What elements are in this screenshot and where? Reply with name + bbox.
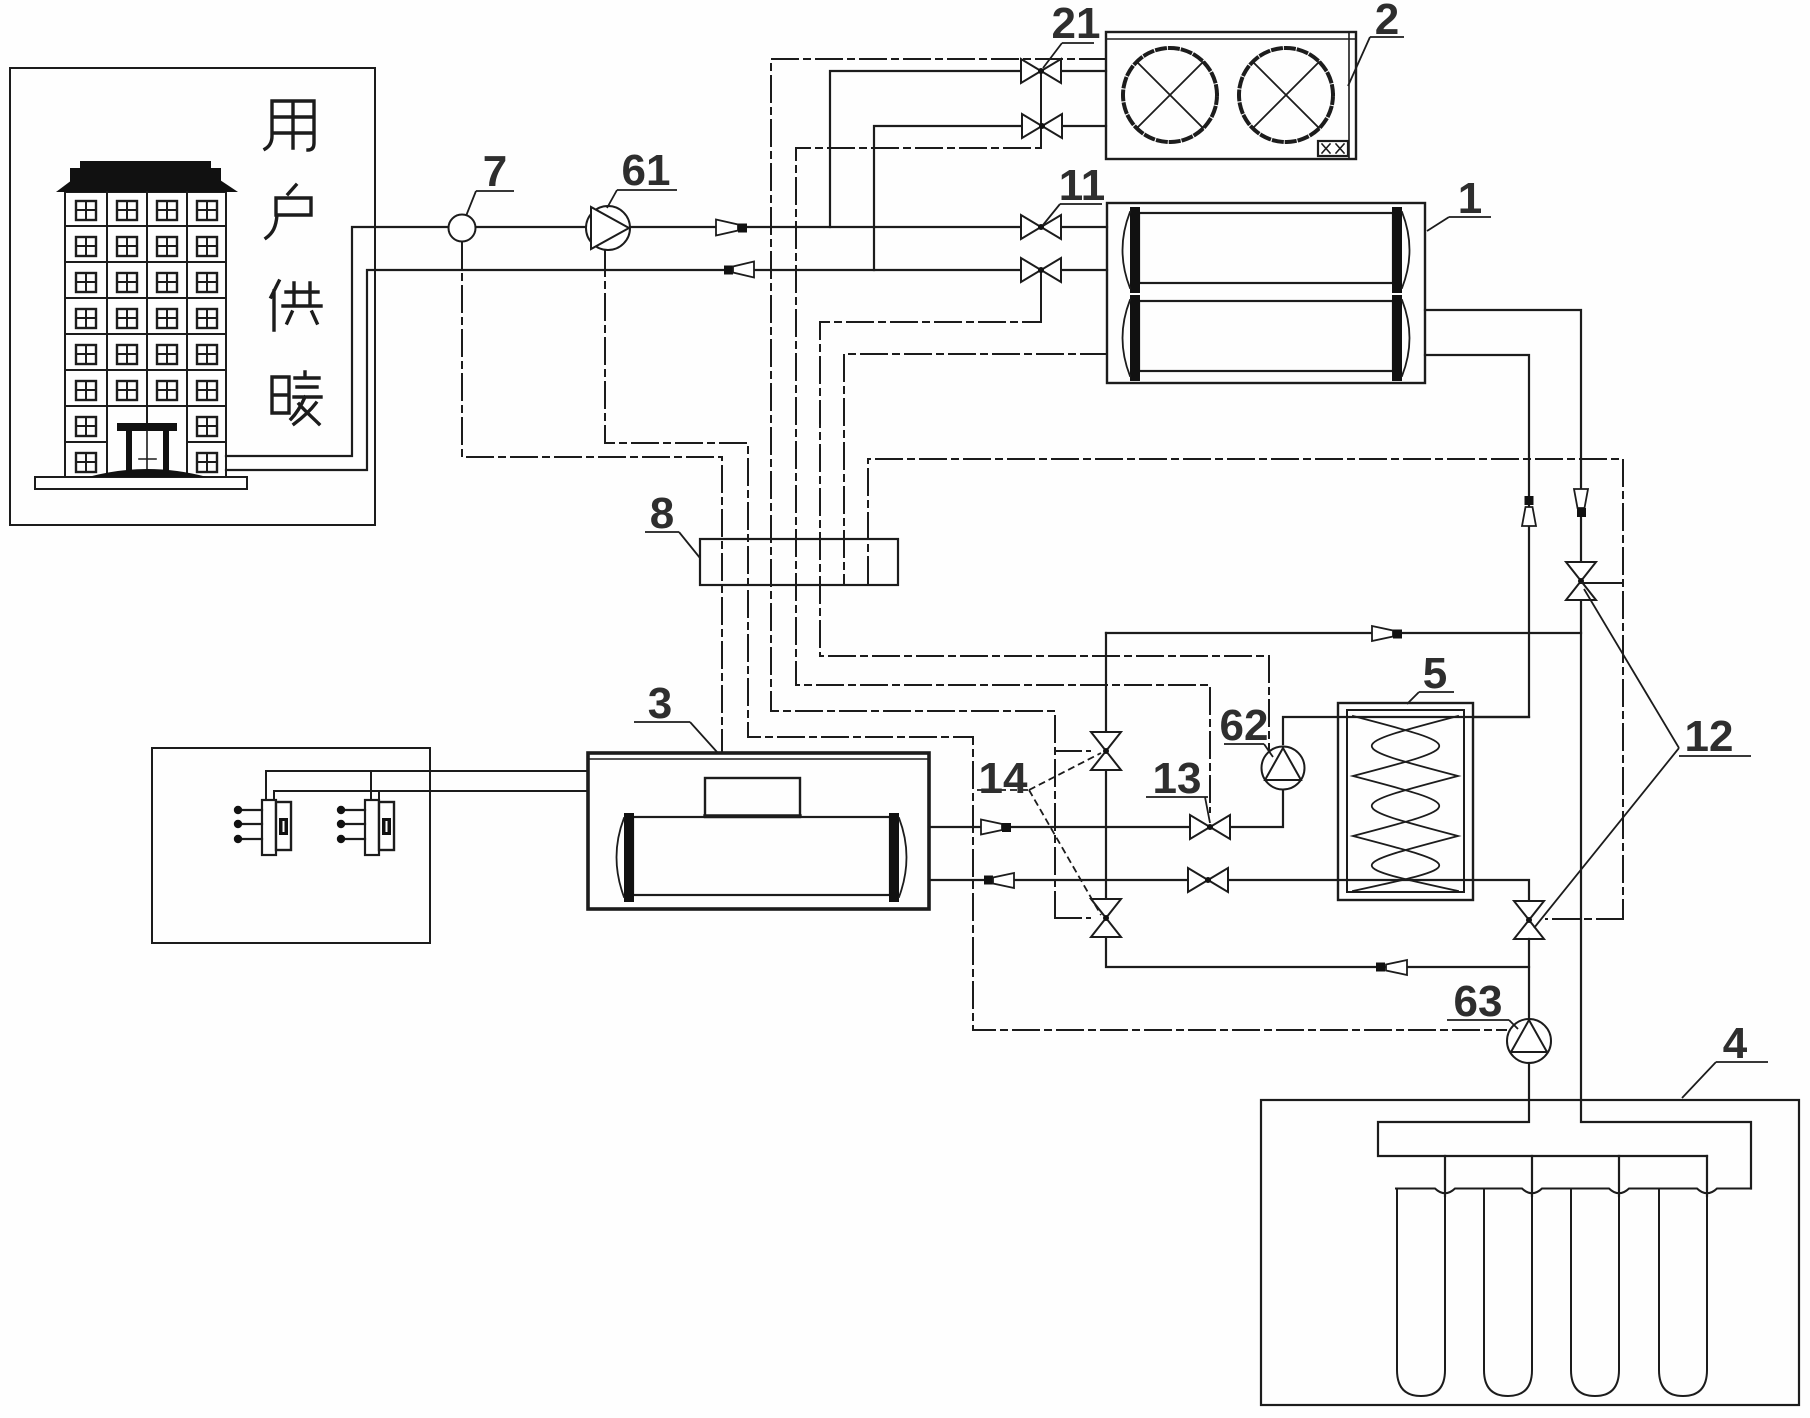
svg-text:8: 8: [650, 489, 674, 538]
valve12 upper right stub (wire): [1581, 582, 1623, 584]
building entrance mound: [88, 469, 207, 477]
svg-text:61: 61: [622, 146, 671, 195]
valve 13 upper: [1190, 815, 1230, 839]
unit3 to valve13 upper pipe (wire): [929, 791, 1283, 827]
building floor lines: [65, 226, 226, 442]
valve-21 branch line upper (wire): [830, 71, 1106, 227]
svg-text:63: 63: [1454, 977, 1503, 1026]
unit1 right outlet lower to vertical (wire): [1425, 355, 1529, 717]
svg-text:14: 14: [979, 754, 1028, 803]
chinese label 暖: [272, 372, 321, 424]
pump 61: [586, 206, 630, 250]
ground heat exchanger 4 box: [1261, 1100, 1799, 1405]
pipe return to building (wire): [226, 270, 1107, 470]
label 1 leader: [1427, 217, 1491, 231]
controller 8 box: [700, 539, 898, 585]
svg-text:4: 4: [1723, 1019, 1748, 1068]
control dash-dot: valve 21 drop to controller 8 to valve 13 (wire): [796, 71, 1210, 812]
flow arrow right on y633 line: [1372, 626, 1402, 641]
svg-text:21: 21: [1052, 0, 1101, 48]
building column lines: [107, 192, 187, 477]
ground U-tube at 1707: [1659, 1189, 1707, 1397]
flow arrow right on y827: [981, 820, 1011, 835]
ground U-tube at 1532: [1484, 1189, 1532, 1397]
unit3 to valve13 lower pipe through hx5 (wire): [929, 880, 1529, 901]
terminal box of unit 2: [1318, 141, 1348, 156]
heat exchanger 5 box: [1338, 703, 1473, 900]
label 5 leader: [1407, 692, 1454, 704]
pump62 outlet to hx5 (wire): [1283, 717, 1529, 744]
valve 14 riser vertical (wire): [1106, 633, 1529, 967]
svg-text:13: 13: [1153, 754, 1202, 803]
chinese label 用: [265, 101, 321, 424]
valve 13 lower: [1188, 868, 1228, 892]
hx5 coil: [1353, 716, 1439, 891]
unit 1 cylinder B body: [1123, 295, 1410, 381]
fan 2 of unit 2: [1239, 48, 1333, 142]
pump63 to ground loop (wire): [1528, 1063, 1530, 1122]
label 62 leader: [1224, 744, 1273, 757]
indoor terminal box: [152, 748, 430, 943]
building base platform: [35, 477, 247, 489]
control dash-dot: condenser 1 to controller 8 (wire): [844, 354, 1107, 583]
label 2 leader: [1348, 37, 1404, 86]
building door: [117, 423, 177, 477]
valve12 lower to pump 63 (wire): [1528, 939, 1530, 1019]
unit1 right outlet upper to vertical (wire): [1425, 310, 1581, 1122]
building body: [65, 192, 226, 477]
flow arrow right on supply pipe: [716, 220, 747, 236]
svg-text:3: 3: [648, 679, 672, 728]
svg-text:5: 5: [1423, 649, 1447, 698]
control dash-dot: fan unit 2 line to controller 8 to valves 14 (wire): [771, 59, 1106, 918]
pipe supply from building (wire): [226, 227, 1107, 456]
label 63 leader: [1447, 1020, 1518, 1029]
ground U-tube at 1445: [1397, 1189, 1445, 1397]
labels layer: [466, 37, 1768, 1098]
valve 21 lower: [1022, 114, 1062, 138]
unit 3 top accessory rect: [705, 778, 800, 817]
chinese label 户: [266, 185, 311, 238]
fan coil device 2: [337, 800, 394, 855]
svg-text:62: 62: [1220, 701, 1269, 750]
ground loop header chamber: [1378, 1122, 1751, 1189]
pump 63: [1507, 1019, 1551, 1063]
fan coil device 1: [234, 800, 291, 855]
label 61 leader: [607, 190, 677, 208]
flow arrow up on x1529 line: [1522, 496, 1536, 526]
terminal return line (wire): [274, 791, 588, 800]
svg-text:11: 11: [1059, 161, 1106, 210]
valve 11 lower control drop (wire): [1040, 270, 1042, 322]
control dash-dot: valve 11 drop to controller 8 to pump 62 (wire): [820, 270, 1269, 752]
label 8 leader: [645, 532, 700, 558]
valve 14 lower: [1091, 899, 1121, 937]
label 3 leader: [634, 722, 717, 752]
svg-text:12: 12: [1685, 712, 1734, 761]
unit 3 compressor cylinder: [617, 813, 907, 902]
svg-text:1: 1: [1458, 174, 1482, 223]
label 4 leader: [1682, 1062, 1768, 1098]
label 14 leaders: [977, 753, 1101, 915]
building roof: [56, 161, 238, 192]
label 13 leader: [1146, 797, 1210, 823]
header connectors: [1445, 1156, 1707, 1196]
sensor 7 circle: [449, 215, 476, 242]
heat pump unit 3 box: [588, 753, 929, 909]
label 12 leaders: [1534, 589, 1751, 928]
tube top line with dips: [1396, 1189, 1751, 1194]
flow arrow left on y880: [984, 873, 1014, 888]
valve 12 lower: [1514, 901, 1544, 939]
building windows: [76, 201, 96, 220]
user-heating enclosure box: [10, 68, 375, 525]
valve 21 upper control drop (wire): [1040, 71, 1042, 148]
svg-text:7: 7: [483, 147, 507, 196]
valve 21 upper: [1021, 59, 1061, 83]
flow arrow left on return pipe: [724, 262, 754, 278]
ground U-tube at 1619: [1571, 1189, 1619, 1397]
horizontal line to valve 14 riser with arrow (wire): [1106, 632, 1581, 634]
valve 12 upper: [1566, 562, 1596, 600]
valve 14 upper: [1091, 732, 1121, 770]
pump 62: [1262, 747, 1305, 790]
label 21 leader: [1043, 43, 1094, 68]
label 7 leader: [466, 191, 514, 216]
control dash-dot: controller 8 to valves 12 (wire): [868, 459, 1623, 919]
label 11 leader: [1043, 204, 1102, 225]
control dash-dot: pump 61 to controller 8 to pump 63 (wire): [605, 250, 1506, 1030]
fan-coil unit 2 box: [1106, 32, 1356, 159]
unit 1 cylinder A body: [1123, 207, 1410, 293]
svg-text:2: 2: [1375, 0, 1399, 44]
flow arrow left on y967 line: [1376, 960, 1407, 975]
flow arrow down on x1581 line: [1574, 489, 1588, 517]
terminal supply line (wire): [266, 771, 588, 800]
valve-21 branch line lower (wire): [874, 126, 1106, 270]
valve 11 lower: [1021, 258, 1061, 282]
chinese label 供: [271, 281, 321, 330]
control dash-dot: sensor 7 to controller 8 (wire): [462, 242, 722, 753]
valve 11 upper: [1021, 215, 1061, 239]
evaporator-condenser unit 1 box: [1107, 203, 1425, 383]
fan 1 of unit 2: [1123, 48, 1217, 142]
